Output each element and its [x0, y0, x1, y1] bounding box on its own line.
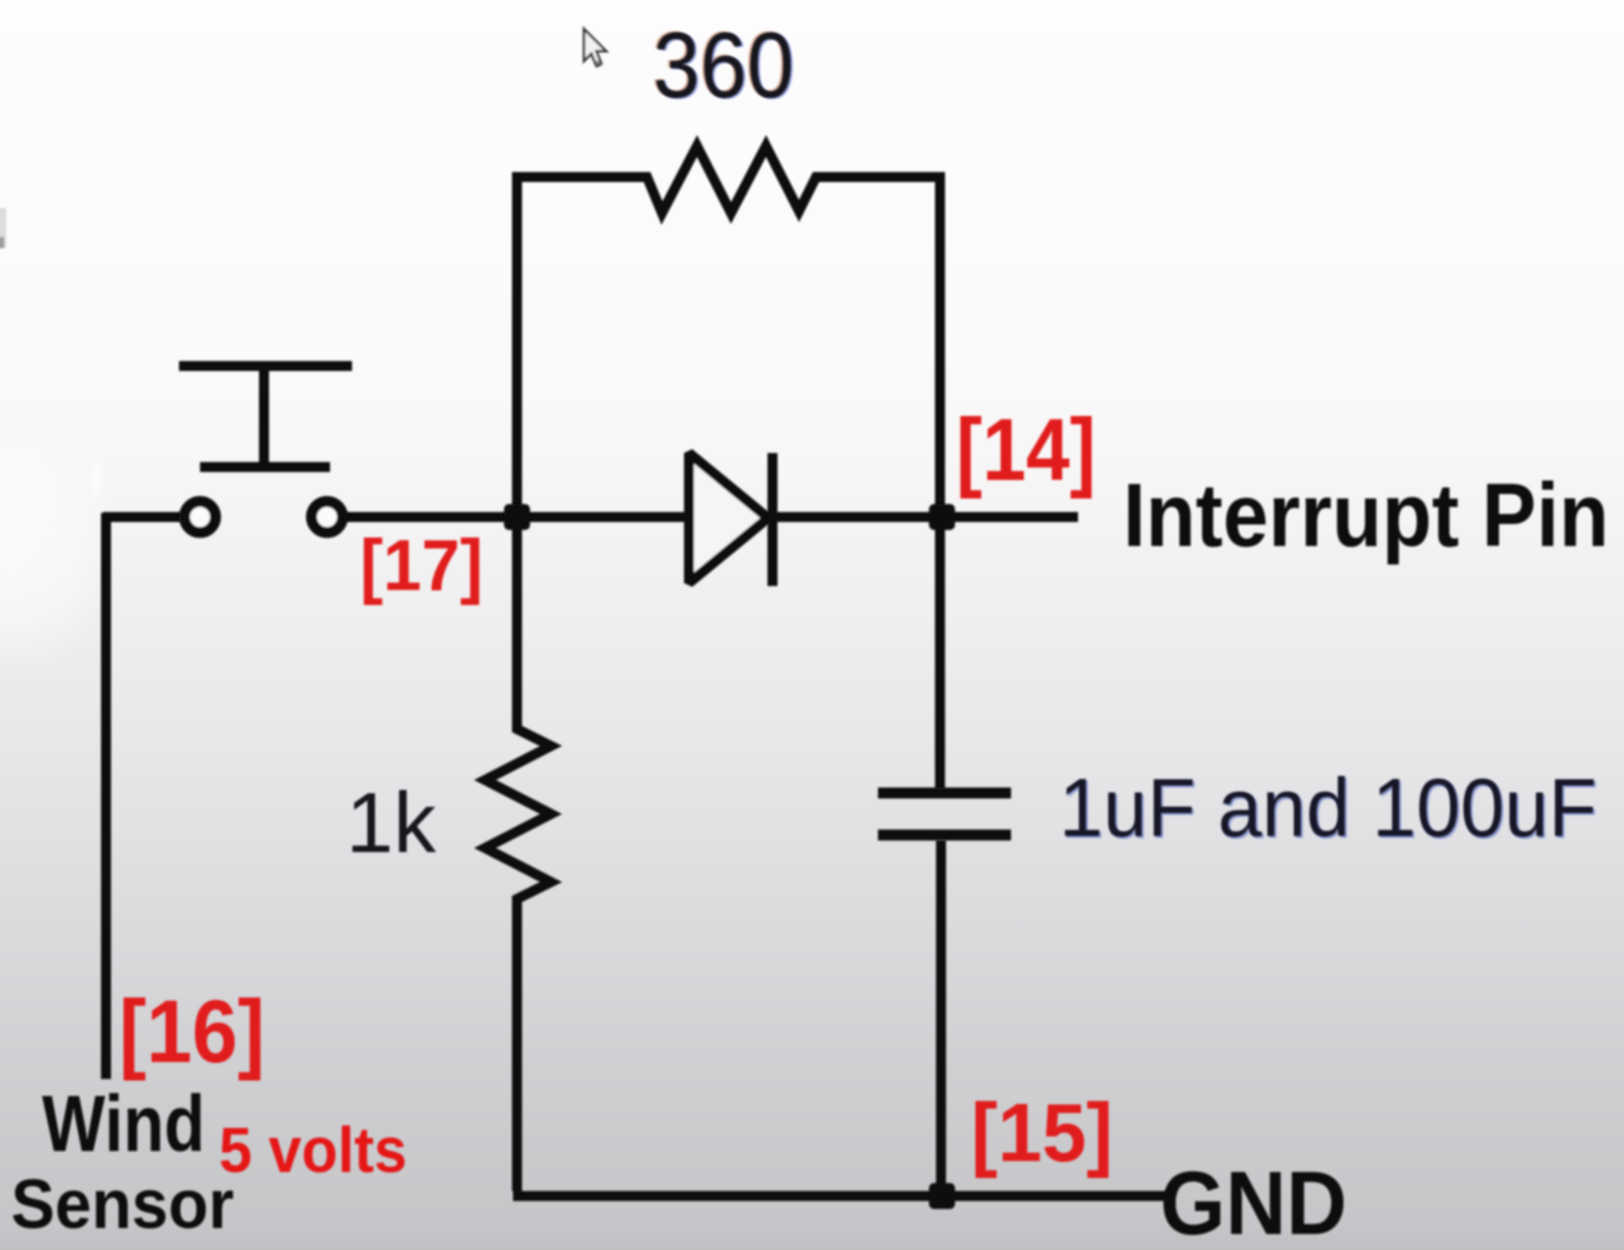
pushbutton S1 right contact circle: [312, 502, 343, 533]
junction node 14: [929, 504, 955, 530]
svg-text:Sensor: Sensor: [11, 1165, 234, 1243]
svg-text:5 volts: 5 volts: [219, 1114, 407, 1186]
junction node 15: [929, 1183, 955, 1209]
svg-text:[17]: [17]: [360, 526, 483, 606]
svg-text:[14]: [14]: [956, 400, 1096, 499]
svg-text:Interrupt Pin: Interrupt Pin: [1123, 466, 1609, 566]
pushbutton S1 lower bar: [200, 462, 330, 472]
diode D1 triangle: [689, 453, 768, 583]
svg-text:360: 360: [653, 13, 794, 117]
wire: right vertical from node 14 down to capacitor: [935, 521, 945, 789]
wire: bottom GND rail: [513, 1191, 1172, 1201]
svg-text:1k: 1k: [346, 776, 436, 871]
junction node 17: [504, 504, 530, 530]
wire: main horizontal node line y=517, left stub to button: [103, 512, 181, 522]
pushbutton S1 top bar: [179, 361, 352, 371]
svg-text:Wind: Wind: [42, 1079, 205, 1168]
capacitor C1 bottom plate: [878, 830, 1011, 841]
wire: left vertical drop to wind sensor: [101, 513, 111, 1079]
left edge dark tick: [0, 208, 6, 248]
pushbutton S1 left contact circle: [185, 502, 216, 533]
svg-text:GND: GND: [1160, 1154, 1347, 1250]
svg-text:[16]: [16]: [119, 981, 265, 1081]
capacitor C1 top plate: [878, 788, 1011, 799]
wire: capacitor bottom to GND rail: [936, 840, 946, 1196]
resistor R2 1k vertical zigzag with leads: [485, 521, 551, 1191]
svg-text:[15]: [15]: [971, 1086, 1113, 1179]
pushbutton S1 actuator stem: [259, 369, 269, 465]
wire: feedback loop left vertical + top + resistor R1 zigzag + right vertical: [517, 146, 940, 513]
white patch artifact left middle: [0, 415, 125, 675]
svg-text:1uF and 100uF: 1uF and 100uF: [1059, 761, 1597, 854]
mouse cursor: [584, 29, 606, 68]
wire: main horizontal from button to Interrupt Pin: [345, 512, 1078, 522]
diode D1 cathode bar: [768, 453, 778, 586]
